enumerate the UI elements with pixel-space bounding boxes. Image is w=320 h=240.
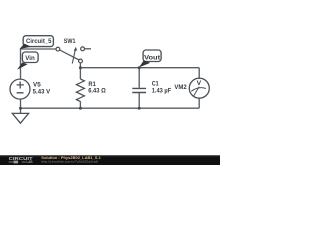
svg-text:VM2: VM2 [174,85,187,91]
junction top R1 [79,66,82,69]
svg-text:LAB: LAB [26,160,33,164]
junction bottom V5 [19,107,22,110]
voltmeter VM2 [189,78,209,98]
svg-text:6.43 Ω: 6.43 Ω [88,88,106,94]
svg-text:Circuit_5: Circuit_5 [26,39,52,45]
svg-text:R1: R1 [88,82,96,88]
svg-text:1.43 µF: 1.43 µF [152,88,172,94]
capacitor C1 [132,88,146,92]
wire ground stem [20,108,22,113]
switch SW1 [56,47,85,63]
wire switch right stub [85,48,92,50]
resistor R1 [76,79,84,102]
svg-text:Vout: Vout [144,56,160,62]
junction top C1 [138,66,141,69]
node flag Vin [17,52,38,70]
wire node A to switch left [21,48,57,50]
wire C1 top lead [138,68,140,88]
wire switch common lead [79,63,81,68]
wire R1 bottom lead [79,101,81,108]
svg-text:C1: C1 [152,82,160,88]
wire V5 bottom to bottom rail [20,99,22,108]
node flag Vout [139,50,161,67]
svg-text:SW1: SW1 [64,39,76,45]
voltage source V5 [10,79,30,99]
wire R1 top lead [79,68,81,79]
switch arrow [72,51,75,64]
wire node A down to V5 top [20,48,22,79]
svg-text:http://circuitlab.com/c/7y5b25: http://circuitlab.com/c/7y5b252a2sa8 [41,160,98,164]
footer logo CIRCUIT LAB [9,156,33,164]
wire C1 bottom lead [138,93,140,108]
wire bottom rail [21,107,200,109]
junction bottom R1 [79,107,82,110]
svg-text:V5: V5 [33,83,41,89]
svg-text:Vin: Vin [25,56,35,62]
junction bottom C1 [138,107,141,110]
wire VM2 top lead [198,68,200,79]
wire top rail [80,67,199,69]
wire VM2 bottom lead [198,98,200,108]
footer bar [0,155,220,165]
svg-text:5.43 V: 5.43 V [33,89,51,95]
footer solution text [41,156,101,164]
blade [60,50,79,60]
node flag Circuit_5 [20,36,54,49]
ground [12,113,28,123]
